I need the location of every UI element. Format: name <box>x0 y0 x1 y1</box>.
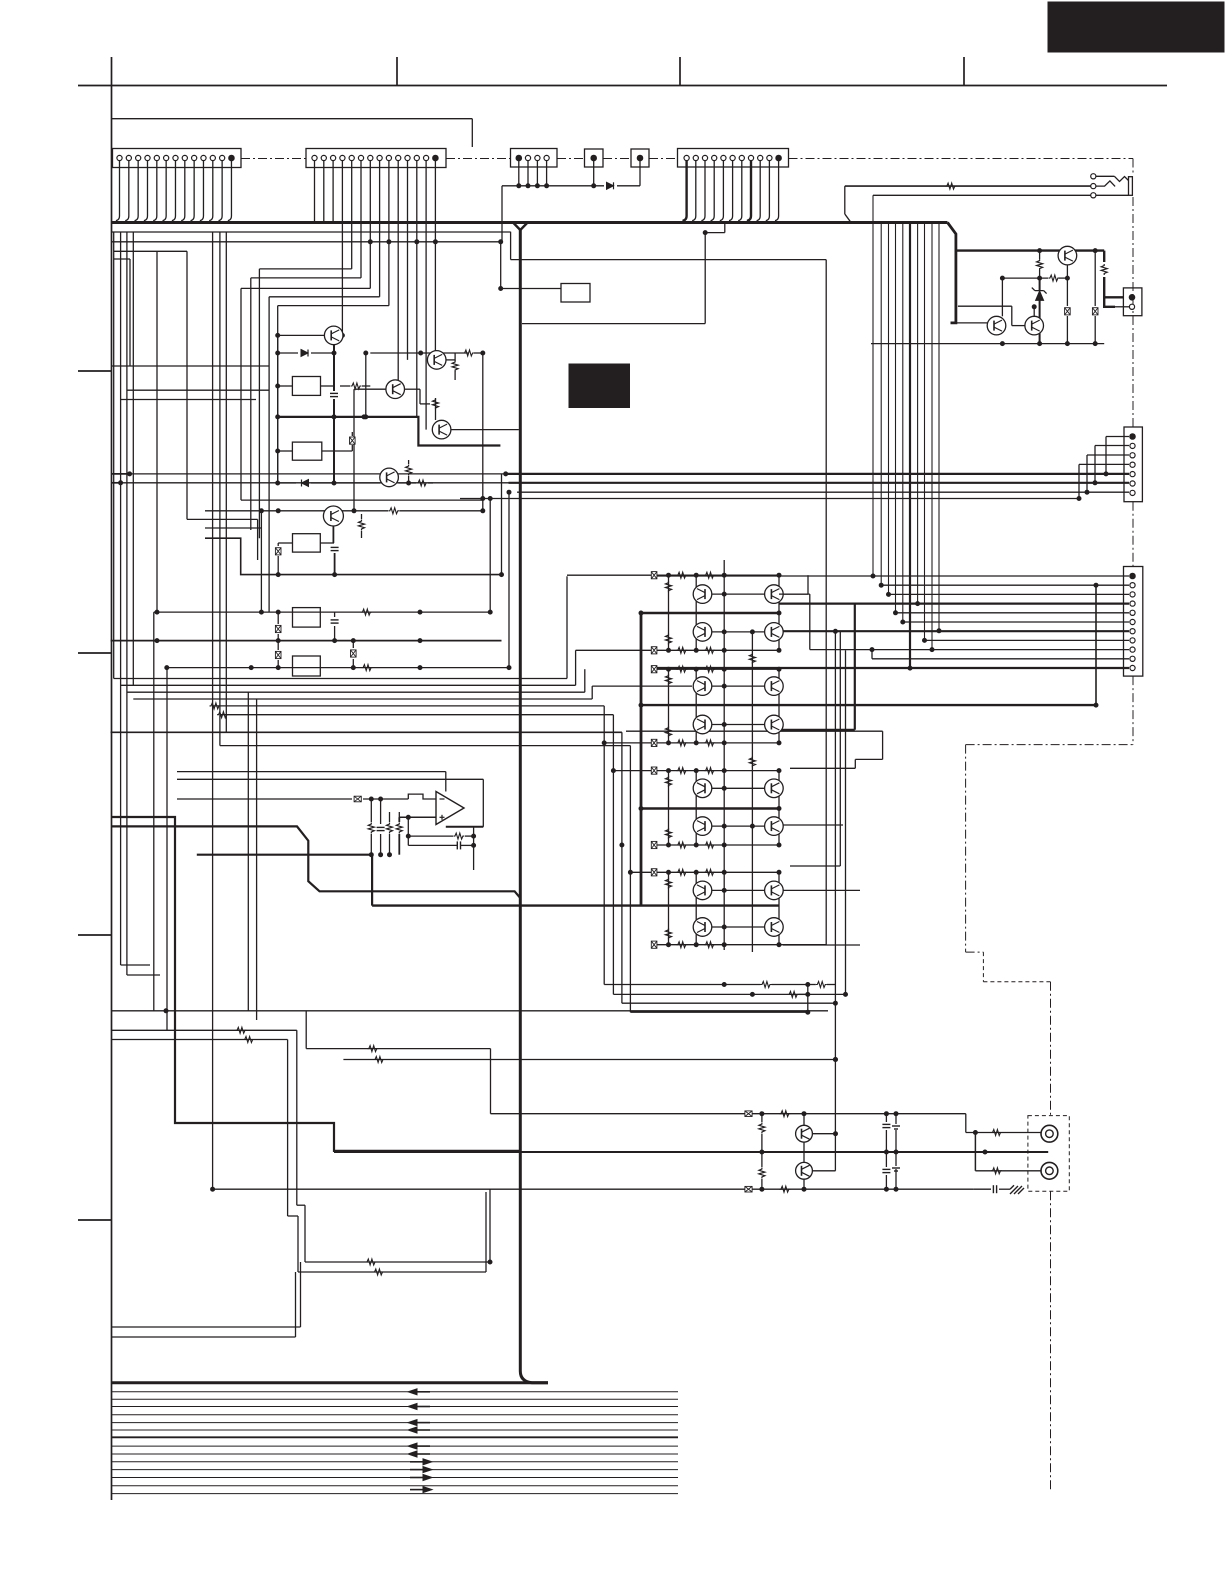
signal path B (thick) <box>112 826 521 898</box>
wire CNA row4 <box>1079 463 1129 465</box>
wire Q21 base <box>812 1170 836 1172</box>
wire right mesh v 490 <box>489 499 491 613</box>
wire out top <box>491 1113 966 1115</box>
wire T1 top rail <box>278 334 325 336</box>
wire bundle h1 <box>114 678 567 680</box>
resistor R5 <box>361 514 363 519</box>
wire out bottom <box>213 1188 974 1190</box>
resistor R23 <box>779 1186 790 1192</box>
wire mesh top h2 <box>251 277 361 279</box>
wire RCA feed upper <box>966 1132 1041 1134</box>
resistor R7 box <box>293 608 321 628</box>
chassis dash-dot top run <box>241 158 306 160</box>
wire CNB row10 jog <box>871 650 873 659</box>
wire Q20 base <box>812 1133 836 1135</box>
resistor R6 box <box>293 534 321 552</box>
wire CNA feeder4 <box>460 498 1079 500</box>
transistor Q10 <box>1058 246 1077 265</box>
wire right mesh v 482 <box>482 353 484 511</box>
node below CN5 <box>703 231 707 235</box>
X resistor XR2 <box>277 543 279 546</box>
wire pair A upper <box>112 1029 297 1031</box>
wire headphone mid <box>845 185 1091 187</box>
wire Q5 row <box>278 482 296 484</box>
connector CN3 wires <box>518 161 520 186</box>
resistor R4 <box>408 460 410 464</box>
resistor R20 <box>761 1114 763 1122</box>
wire reg mid <box>1002 277 1048 279</box>
wire left mesh v x120 <box>120 232 122 965</box>
headphone jack body <box>1096 194 1129 196</box>
wire pair B upper <box>306 1048 490 1050</box>
array resistor rows <box>654 574 779 576</box>
wire R3 rail <box>278 450 293 452</box>
sub bus below <box>112 231 511 233</box>
transistor Q3 <box>386 380 405 399</box>
wire opamp plus in <box>399 816 436 818</box>
resistor R21 <box>761 1152 763 1167</box>
wire bundle h8 <box>220 745 631 747</box>
array long vertical 1 <box>723 560 725 950</box>
wire Q2 rail <box>370 352 468 354</box>
wire left rail v <box>277 335 279 483</box>
wire left mesh v x154 <box>153 612 155 1011</box>
wire opamp fb top <box>177 771 446 773</box>
wire pair A lower <box>112 1039 288 1041</box>
title block (black) <box>1048 2 1224 52</box>
wire diode branch v <box>365 353 367 417</box>
op-amp U1 <box>436 792 464 825</box>
array long vertical 2 <box>751 632 753 952</box>
wire top feed <box>112 118 473 120</box>
wire left mesh v x226 <box>225 232 227 732</box>
chassis dash-dot jog <box>966 744 1133 746</box>
connector CN1 pins <box>117 155 122 160</box>
wire CNA row1 <box>1106 436 1129 438</box>
wire below-array 2 <box>613 993 845 995</box>
wire left mesh v x220 <box>219 232 221 746</box>
wire mesh left v2 <box>250 278 252 530</box>
wire opamp out (thick) <box>446 826 484 828</box>
chassis dash-dot right vertical <box>1132 159 1134 176</box>
capacitor bank <box>885 1114 887 1122</box>
reg bottom rail <box>871 343 1104 345</box>
connector CNA body <box>1124 427 1142 502</box>
resistor R22 <box>779 1111 790 1117</box>
connector CN2 pins <box>312 155 317 160</box>
transistor Q12 <box>1025 316 1044 335</box>
resistor R10 <box>1101 264 1107 275</box>
wire Q3 base <box>354 388 386 390</box>
wire left small links <box>129 259 131 366</box>
wire Q12 base <box>958 305 1012 307</box>
wire Q10 emitter <box>1066 265 1068 278</box>
IC box small <box>561 284 590 303</box>
wire out mid (thick) <box>334 1151 1048 1153</box>
wire array-B thick hook <box>854 604 856 730</box>
transistor Q4 <box>432 420 451 439</box>
left tick 3 <box>78 934 112 936</box>
wire left mesh v x127 <box>126 232 128 975</box>
wire CN3 net horizontal <box>502 185 604 187</box>
wire CNA row3 <box>1087 454 1129 456</box>
wire bundle verticals <box>872 195 874 576</box>
diode D-top <box>607 182 614 189</box>
connector CN4b pin <box>637 155 643 161</box>
wire thick rail mid <box>278 417 501 446</box>
array rail 2 (thick) <box>641 704 1096 706</box>
wire opamp jog <box>408 794 436 799</box>
top tick 1 <box>396 57 398 86</box>
transistor Q20 <box>796 1125 813 1142</box>
array bus vertical (thick) <box>640 613 643 906</box>
wire CNB feed vertical <box>1095 585 1097 705</box>
array rail 1 (thick) <box>641 612 779 614</box>
connector CN5 body <box>678 149 789 168</box>
sub bus 2 <box>112 241 501 243</box>
connector CN5 wires to bus <box>684 161 687 223</box>
signal path C (thick) <box>197 855 372 906</box>
wire array right aux 1 <box>839 632 841 866</box>
wire below-array 4 <box>630 1011 807 1013</box>
wire mesh left v4 <box>268 297 270 612</box>
wire mesh top h1 <box>259 268 351 270</box>
wire CNC open pin <box>1115 306 1129 308</box>
wire sub bus route <box>510 232 512 260</box>
connector CN4a body <box>585 149 604 167</box>
wire bundle h2 <box>121 684 576 686</box>
connector CN5 pins <box>684 155 689 160</box>
wire medium rail <box>205 538 502 574</box>
wire pair B lower <box>343 1059 835 1061</box>
headphone jack ring contact <box>1096 181 1115 187</box>
wire left mesh v x114 <box>113 232 115 679</box>
wire CN5 return loop <box>704 233 706 324</box>
wire base feed <box>834 631 836 1171</box>
wire opamp fb res <box>408 835 453 837</box>
wire left mesh v x133 <box>132 232 134 685</box>
wire ground branch <box>973 1188 991 1190</box>
array rail 3 (thick) <box>641 807 779 809</box>
wire opamp minus v <box>407 817 409 845</box>
wire headphone mid drop <box>844 186 846 214</box>
wire opamp in rail <box>177 798 352 800</box>
wire bundle h6 <box>220 714 614 716</box>
wire headphone sleeve <box>873 194 1091 196</box>
wire Q2 right <box>446 359 455 361</box>
wire long vertical right <box>825 260 827 945</box>
wire Q12 collector <box>1033 307 1035 317</box>
connector CN2 body <box>306 149 446 168</box>
wire R1 right <box>333 376 335 391</box>
ground <box>1010 1185 1024 1194</box>
chassis dash-dot lower vertical <box>1050 982 1052 1116</box>
array right exits <box>779 593 808 595</box>
RCA jack R <box>1041 1162 1058 1179</box>
wire Q4 right <box>451 429 519 431</box>
wire R6 rail <box>278 542 292 544</box>
connector CNA pins <box>1130 434 1136 440</box>
wire left mesh v x167 <box>166 668 168 1031</box>
top tick 3 <box>963 57 965 86</box>
transistor Q6 <box>323 506 343 526</box>
wire array right aux 2 <box>845 650 847 994</box>
wire Q1 emitter <box>333 345 335 376</box>
power bus horizontal (thick) <box>112 221 948 224</box>
main vertical bus (thick) <box>520 229 548 1383</box>
wire CNA row6 (thick) <box>509 482 1130 484</box>
resistor R2 zigzag <box>340 385 350 387</box>
connector CN4a wire <box>593 161 595 186</box>
zener diode ZD1 <box>1039 278 1041 291</box>
array vertical interconnect <box>668 575 670 650</box>
connector CN1 body <box>113 149 242 168</box>
bus corner to right vertical <box>948 223 956 325</box>
capacitor bank 2 <box>885 1152 887 1167</box>
wire Q1 row <box>341 334 344 336</box>
wire CNA row7 <box>517 491 1129 493</box>
left tick 1 <box>78 370 112 372</box>
wire mesh left v3 <box>240 288 242 500</box>
X resistor XR4 <box>352 641 354 648</box>
wire RCA feed lower <box>974 1133 976 1171</box>
wire Q10 load <box>1066 278 1068 306</box>
wire right mesh v 509 <box>508 492 510 667</box>
wire Q20 legs <box>803 1114 805 1126</box>
array base links <box>712 593 765 595</box>
wire mesh left v5 <box>277 306 279 483</box>
X resistor XR6 <box>745 1186 752 1192</box>
transistor Q1 <box>324 326 343 345</box>
wire left mesh v x213 <box>212 232 214 1189</box>
transistor Q2 <box>427 351 446 370</box>
connector CN4a pin <box>591 155 597 161</box>
left tick 2 <box>78 652 112 654</box>
RCA jack box (dashed) <box>1028 1116 1069 1192</box>
wire plus feed (thick) <box>398 817 400 822</box>
wire below-array 3 <box>622 1002 836 1004</box>
resistor R8 box <box>293 656 321 676</box>
wire lower rail 1 <box>205 510 388 512</box>
transistor Q11 <box>987 316 1006 335</box>
page border top horizontal <box>78 85 1167 87</box>
bus Y-junction <box>513 223 528 231</box>
wire CN3 net drop <box>501 186 503 242</box>
wire left mesh v x157 <box>156 251 158 612</box>
reg top rail (thick) <box>955 249 1104 251</box>
wire rail y1010 <box>112 1010 829 1012</box>
wire mesh bottom <box>241 499 483 501</box>
wire mid mesh v x256 <box>256 699 258 1020</box>
resistor R3 box <box>292 442 321 460</box>
resistor R1 box <box>292 377 320 396</box>
top tick 2 <box>679 57 681 86</box>
wire right mesh v 501 <box>501 474 503 575</box>
wire thick rail low <box>111 640 502 642</box>
X resistor XR5 <box>745 1111 752 1117</box>
wire bundle h5 <box>213 705 605 707</box>
wire opamp fb cap <box>408 844 457 846</box>
transistor Q5 <box>380 468 399 487</box>
wire CNA row5 (thick) <box>506 473 1129 475</box>
capacitor C2 <box>334 612 336 617</box>
bottom bus (thick) <box>112 1381 549 1384</box>
connector CN3 pins <box>516 155 522 161</box>
wire step A2 <box>287 1040 289 1217</box>
reg right branch (thick) <box>1104 251 1123 307</box>
signal path A (thick) <box>112 817 521 1151</box>
wire Q11 base <box>951 322 988 324</box>
wire step A1 <box>296 1030 298 1205</box>
wire Q6 emitter <box>332 526 334 543</box>
opamp input RC <box>370 799 372 822</box>
headphone jack pins <box>1091 174 1096 179</box>
wire bundle h7 (thick) <box>111 731 622 733</box>
connector CNC body <box>1123 288 1142 316</box>
array transistors right column <box>765 585 784 604</box>
page border left vertical <box>111 57 113 1500</box>
wire CNB rows <box>654 575 1129 577</box>
wire mid mesh v x249 <box>247 692 249 1011</box>
wire reg right load <box>1094 251 1096 306</box>
wire Q11 collector <box>1001 278 1003 316</box>
connector CN2 wires <box>314 161 316 223</box>
connector CN4b body <box>631 149 649 167</box>
connector CN3 body <box>511 149 558 168</box>
left tick 4 <box>78 1219 112 1221</box>
wire R1 rail <box>278 385 293 387</box>
wire mesh top h3 <box>241 287 370 289</box>
wire to IC box <box>502 288 561 290</box>
resistor R11 <box>1039 251 1041 259</box>
diode D1 <box>278 352 298 354</box>
wire mesh top h4 <box>269 296 380 298</box>
wire mesh left v1 <box>258 269 260 538</box>
module (black box) <box>569 364 630 408</box>
wire opamp fb top2 <box>177 778 483 780</box>
array transistors left column <box>693 585 712 604</box>
wire bundle h3 <box>127 691 585 693</box>
connector CNB pins <box>1130 573 1136 579</box>
wire reg out row <box>157 611 490 613</box>
transistor Q21 <box>796 1162 813 1179</box>
X resistor XR1 <box>351 432 353 436</box>
wire reg out row2 <box>167 667 509 669</box>
connector CN1 wires to bus <box>117 161 120 223</box>
RCA jack L <box>1041 1125 1058 1142</box>
wire below-array 1 <box>604 984 760 986</box>
connector CNB body <box>1124 567 1143 677</box>
array rail 4 (thick) <box>372 904 779 906</box>
wire Q3 links <box>405 388 421 390</box>
connector CN4b wire <box>639 161 641 186</box>
bottom ribbon wires <box>112 1391 679 1393</box>
wire CNA row2 <box>1095 445 1129 447</box>
wire mid jog right <box>626 730 883 732</box>
wire mesh top h5 <box>278 305 389 307</box>
X resistor XR3 <box>277 612 279 624</box>
headphone jack tip contact <box>1096 175 1114 177</box>
bottom ribbon arrows <box>408 1389 417 1395</box>
connector CNC pins <box>1129 295 1135 301</box>
wire lower aux <box>187 518 258 520</box>
wire bundle h4 <box>133 698 592 700</box>
